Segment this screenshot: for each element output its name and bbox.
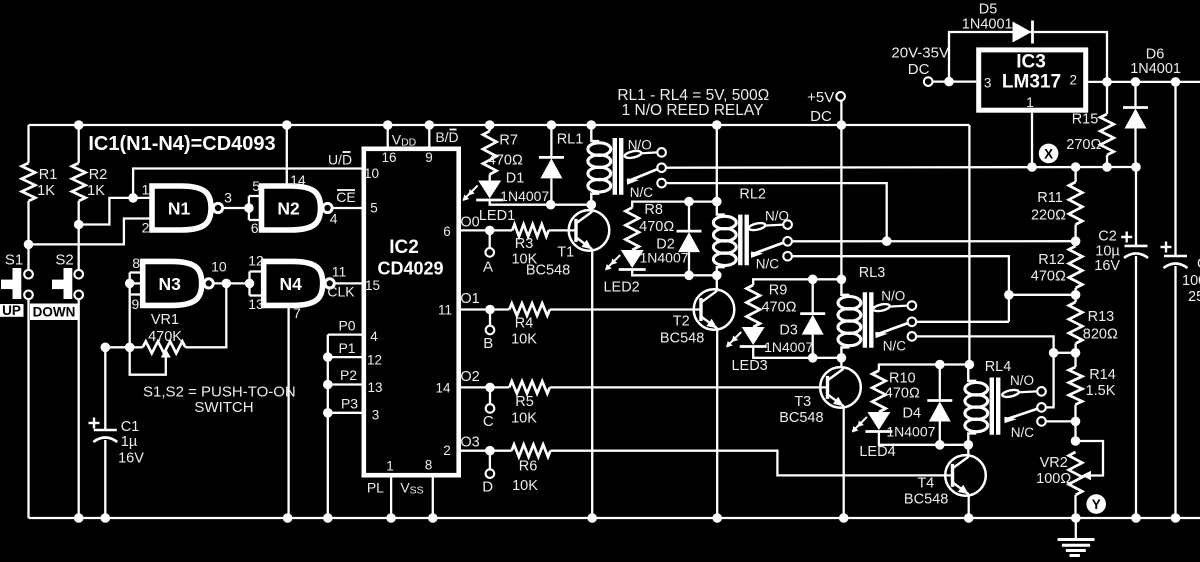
resistor R14 1.5K <box>1074 353 1076 367</box>
svg-text:R10: R10 <box>889 371 916 387</box>
wire R13/R14 branch <box>1054 352 1076 354</box>
node dots on +5V rail <box>74 120 84 130</box>
node dot D2 top <box>684 197 694 207</box>
svg-text:R11: R11 <box>1037 190 1063 206</box>
svg-text:C1: C1 <box>121 419 140 435</box>
svg-text:S2: S2 <box>55 252 73 269</box>
svg-text:D3: D3 <box>779 322 798 338</box>
svg-text:8: 8 <box>425 458 433 473</box>
node dot VR1-C1 junction <box>101 343 111 353</box>
svg-text:1000µ: 1000µ <box>1182 273 1200 289</box>
svg-text:IC1(N1-N4)=CD4093: IC1(N1-N4)=CD4093 <box>88 133 275 155</box>
terminal A <box>489 230 491 248</box>
diode D2 1N4007 <box>688 202 690 232</box>
svg-text:PL: PL <box>367 480 384 496</box>
svg-text:2: 2 <box>142 220 150 236</box>
svg-text:CD4029: CD4029 <box>377 259 443 279</box>
node dot O1/B <box>485 305 495 315</box>
resistor R2 <box>72 163 86 201</box>
svg-text:IC3: IC3 <box>1016 52 1046 73</box>
svg-text:3: 3 <box>984 76 992 91</box>
node dot D3 top <box>808 275 818 285</box>
relay RL4 contacts <box>1002 389 1020 399</box>
svg-text:O3: O3 <box>460 434 479 450</box>
svg-text:1N4007: 1N4007 <box>886 423 935 439</box>
relay RL2 contacts <box>748 222 766 232</box>
svg-text:470Ω: 470Ω <box>639 219 674 235</box>
svg-text:P0: P0 <box>338 317 355 333</box>
svg-text:D: D <box>482 479 493 496</box>
node dot RL2 coil bottom <box>712 271 722 281</box>
svg-text:R1: R1 <box>39 167 58 183</box>
svg-text:10: 10 <box>364 166 379 181</box>
svg-text:D1: D1 <box>506 171 525 187</box>
relay RL3 contacts <box>873 303 891 313</box>
IC2 pin VDD stub (pin 16) <box>387 125 389 147</box>
node dot D5 left <box>944 77 954 87</box>
transistor T1 BC548 <box>569 210 610 251</box>
svg-text:LED4: LED4 <box>859 444 895 460</box>
wire O3 row from IC2 pin2 to T4 base <box>461 450 512 452</box>
wire RL1 common to ADJ line (node X line) <box>666 166 1137 169</box>
wire channel1 bottom (LED1/D1/coil to T1 collector) <box>490 200 592 205</box>
wire ground rail <box>29 517 1200 519</box>
wire left column S1/R1 <box>27 125 29 163</box>
svg-text:A: A <box>483 258 493 275</box>
wire RL2 N/C to R12/R13 junction net <box>792 256 1009 322</box>
terminal B <box>489 310 491 327</box>
svg-text:470Ω: 470Ω <box>885 386 920 402</box>
svg-text:20V-35V: 20V-35V <box>891 45 949 62</box>
wire RL3 common (joins same vertical) <box>916 321 1009 323</box>
svg-text:R9: R9 <box>769 283 788 299</box>
wire N3 input net from VR1 <box>130 282 143 284</box>
nand gate N1 <box>152 186 211 230</box>
svg-text:16: 16 <box>381 150 396 165</box>
svg-text:N/O: N/O <box>1010 373 1034 388</box>
wire channel3 bottom <box>753 347 841 358</box>
node dot RL4 coil bottom <box>964 440 974 450</box>
svg-text:BC548: BC548 <box>904 491 948 507</box>
LED LED1 <box>489 174 491 180</box>
capacitor C1 1u 16V <box>104 347 106 430</box>
node dot O0/A <box>485 226 495 236</box>
svg-text:12: 12 <box>367 353 382 368</box>
capacitor C3 1000u 25V (clipped at edge) <box>1171 77 1181 87</box>
svg-text:9: 9 <box>425 150 433 165</box>
resistor R8 470ohm <box>625 208 639 250</box>
wire RL3 N/C to R13/R14 junction and RL4 common <box>916 336 1053 407</box>
svg-text:RL4: RL4 <box>985 359 1012 375</box>
node dot R12/R13 branch elbow <box>1004 290 1014 300</box>
node dot R1-S1 junction <box>24 240 34 250</box>
resistor R12 470ohm <box>1074 241 1076 246</box>
node dot R12/R13 junction <box>1071 290 1081 300</box>
wire IC3 pin1 (ADJ) down <box>1031 113 1033 167</box>
wire N1 pin1 net (to R2/S2 junction and U/D line) <box>79 198 152 225</box>
svg-text:R13: R13 <box>1088 309 1115 325</box>
svg-text:RL1: RL1 <box>557 132 584 148</box>
svg-text:9: 9 <box>132 296 140 312</box>
transistor T4 BC548 <box>945 455 986 496</box>
svg-text:B: B <box>483 335 493 352</box>
svg-text:5: 5 <box>370 201 378 216</box>
wire column S2/R2 <box>78 125 80 163</box>
svg-text:LED3: LED3 <box>731 358 767 374</box>
svg-text:11: 11 <box>438 303 452 318</box>
node dot R14 bottom / RL4 NC <box>1071 417 1081 427</box>
svg-text:N/C: N/C <box>756 257 780 272</box>
wire RL4 N/C to R14 bottom <box>1046 420 1076 422</box>
svg-text:RL3: RL3 <box>859 265 886 281</box>
resistor R15 270ohm <box>1106 82 1108 114</box>
resistor R6 10K <box>512 445 551 457</box>
node dot N4 input junction <box>245 279 255 289</box>
svg-text:1: 1 <box>1026 95 1034 110</box>
svg-text:LED1: LED1 <box>479 208 515 224</box>
node dot RL2 coil top <box>712 197 722 207</box>
svg-text:T2: T2 <box>673 314 690 330</box>
svg-text:470Ω: 470Ω <box>761 299 796 315</box>
wire N4 output (CLK) to IC2 <box>335 282 362 284</box>
svg-text:13: 13 <box>248 296 264 312</box>
svg-text:25V: 25V <box>1188 289 1200 305</box>
svg-text:CLK: CLK <box>327 284 355 300</box>
wire N4 input bracket <box>250 270 264 272</box>
relay RL1 contacts <box>624 150 642 160</box>
node dot N3 input junction <box>125 279 135 289</box>
IC2 pin B/D stub (pin 9) <box>428 125 430 147</box>
svg-text:1N4007: 1N4007 <box>500 188 549 204</box>
wire R12/R13 branch <box>1009 294 1076 296</box>
svg-text:C: C <box>483 413 494 430</box>
svg-text:CE: CE <box>336 189 355 205</box>
IC2 preset pins P0-P3 <box>328 333 362 335</box>
wire channel3 top (+5V via terminal column) <box>753 279 841 285</box>
svg-text:13: 13 <box>367 380 382 395</box>
svg-text:14: 14 <box>435 381 451 396</box>
node dot D6/C2 on ADJ line <box>1131 162 1141 172</box>
node dot R13/R14 junction <box>1071 348 1081 358</box>
wire RL1 N/C to R11/R12 junction net <box>667 183 887 241</box>
node dot D4 bottom <box>935 440 945 450</box>
diode D1 1N4007 <box>550 125 552 157</box>
resistor R7 470ohm <box>489 125 491 131</box>
svg-text:Y: Y <box>1092 497 1101 512</box>
resistor R1 <box>22 163 36 201</box>
svg-text:T3: T3 <box>794 394 811 410</box>
svg-text:BC548: BC548 <box>526 262 570 278</box>
svg-text:15: 15 <box>365 278 380 293</box>
svg-text:LM317: LM317 <box>1002 72 1061 93</box>
wire O0 row from IC2 pin6 to T1 base <box>461 229 512 231</box>
node dot N2 input junction <box>244 203 254 213</box>
svg-text:BC548: BC548 <box>660 331 704 347</box>
svg-text:BC548: BC548 <box>779 410 823 426</box>
svg-text:IC2: IC2 <box>389 237 419 258</box>
wire N4 pin7 to ground <box>287 305 289 518</box>
node dot output/R15 top <box>1102 77 1112 87</box>
svg-text:C2: C2 <box>1098 229 1117 245</box>
svg-text:R14: R14 <box>1089 367 1116 383</box>
svg-text:1.5K: 1.5K <box>1086 383 1116 399</box>
wire N1 pin2 net (to R1/S1 junction) <box>29 219 153 245</box>
svg-text:B/D: B/D <box>435 129 458 145</box>
svg-text:4: 4 <box>370 329 378 344</box>
wire channel4 top <box>879 365 970 371</box>
node dot N3 output feedback junction <box>222 279 232 289</box>
svg-text:T1: T1 <box>557 245 574 261</box>
svg-text:16V: 16V <box>1094 258 1120 274</box>
wire O2 row from IC2 pin14 to T3 base <box>461 386 509 388</box>
nand gate N2 <box>262 186 321 230</box>
svg-text:O2: O2 <box>460 369 479 385</box>
node dot RL3 coil top <box>837 275 847 285</box>
svg-text:+5V: +5V <box>807 89 834 106</box>
node dots on ground rail <box>74 513 84 523</box>
svg-text:R2: R2 <box>89 167 108 183</box>
svg-text:N/C: N/C <box>630 185 654 200</box>
svg-text:3: 3 <box>372 407 380 422</box>
svg-text:6: 6 <box>251 220 259 236</box>
wire T3 emitter to ground <box>843 406 845 518</box>
svg-text:D4: D4 <box>903 406 922 422</box>
wire O1 row from IC2 pin11 to T2 base <box>461 308 509 310</box>
svg-text:1N4001: 1N4001 <box>1130 61 1181 77</box>
wire RL2 common to R11/R12 junction <box>792 240 1076 242</box>
svg-text:VR1: VR1 <box>151 312 179 328</box>
wire N3 output to N4 inputs <box>213 282 249 284</box>
svg-text:S1: S1 <box>5 252 23 269</box>
resistor R11 220ohm <box>1074 167 1076 182</box>
node dot VR2 wiper tie <box>1071 436 1081 446</box>
svg-text:14: 14 <box>290 172 306 188</box>
svg-text:O0: O0 <box>460 214 479 230</box>
node X <box>1039 144 1059 164</box>
svg-text:P2: P2 <box>340 367 357 383</box>
svg-text:4: 4 <box>330 210 338 226</box>
wire channel4 bottom <box>879 432 968 445</box>
resistor R10 470ohm <box>872 371 886 413</box>
IC IC2 CD4029 body <box>364 149 459 475</box>
IC IC3 LM317 body <box>979 50 1086 110</box>
svg-text:1 N/O REED RELAY: 1 N/O REED RELAY <box>622 102 764 119</box>
svg-text:DOWN: DOWN <box>33 305 76 320</box>
ground symbol <box>1075 518 1077 540</box>
wire N2 input bracket <box>249 195 262 197</box>
svg-text:O1: O1 <box>460 291 479 307</box>
svg-text:N4: N4 <box>280 274 303 294</box>
svg-text:5: 5 <box>252 178 260 194</box>
svg-text:1: 1 <box>142 181 150 197</box>
node dot VR1 left/wiper junction <box>125 343 135 353</box>
node dot D2 bottom <box>684 271 694 281</box>
svg-text:12: 12 <box>248 252 264 268</box>
wire +5V rail right drop to RL4 feed <box>968 125 970 365</box>
node dot +5V on rail <box>837 120 847 130</box>
node dot D3 bottom <box>808 353 818 363</box>
svg-text:DC: DC <box>810 108 832 125</box>
svg-text:7: 7 <box>293 305 301 321</box>
resistor R9 470ohm <box>746 285 760 327</box>
node dot +5V/RL4 coil top <box>965 360 975 370</box>
svg-text:10K: 10K <box>512 478 538 494</box>
svg-text:220Ω: 220Ω <box>1031 207 1066 223</box>
nand gate N3 <box>143 261 202 305</box>
LED LED3 <box>742 327 765 345</box>
svg-text:N2: N2 <box>277 199 300 219</box>
svg-text:10K: 10K <box>511 332 537 348</box>
node dot RL3 coil bottom <box>837 353 847 363</box>
svg-text:N/C: N/C <box>883 338 907 353</box>
svg-text:11: 11 <box>332 263 347 279</box>
svg-text:N1: N1 <box>168 199 191 219</box>
wire N1 output to N2 inputs <box>223 207 249 209</box>
svg-text:R3: R3 <box>515 236 534 252</box>
svg-text:1K: 1K <box>37 183 55 199</box>
node dot O2/C <box>485 383 495 393</box>
node dot RL1-NC/RL2-common junction <box>882 236 892 246</box>
svg-text:D6: D6 <box>1146 46 1165 62</box>
svg-text:R8: R8 <box>644 202 663 218</box>
svg-text:1K: 1K <box>87 183 105 199</box>
wire N2 pin14 to +5V rail <box>286 125 288 186</box>
resistor R5 10K <box>509 381 550 393</box>
svg-text:D5: D5 <box>979 2 998 18</box>
svg-text:R15: R15 <box>1072 112 1099 128</box>
node dot RL1 coil bottom <box>587 200 597 210</box>
svg-text:N/O: N/O <box>765 209 789 224</box>
node Y <box>1086 494 1106 514</box>
svg-text:10: 10 <box>211 258 227 274</box>
svg-text:R7: R7 <box>499 133 518 149</box>
capacitor C2 10u 16V <box>1135 167 1137 246</box>
wire T4 emitter to ground <box>968 494 970 518</box>
node dot R11/R12 junction <box>1071 236 1081 246</box>
svg-text:10µ: 10µ <box>1095 243 1120 259</box>
svg-text:2: 2 <box>1069 73 1077 88</box>
svg-text:N3: N3 <box>159 274 182 294</box>
wire channel2 top (+5V drop to R8/D2/RL2) <box>716 125 718 202</box>
svg-text:N/O: N/O <box>881 289 905 304</box>
nand gate N4 <box>264 261 323 305</box>
svg-text:N/O: N/O <box>628 138 652 153</box>
node dot R2-S2 junction <box>74 220 84 230</box>
node dot ADJ/pin1 <box>1027 162 1037 172</box>
svg-text:10K: 10K <box>511 410 537 426</box>
wire IC3 pin2 output line <box>1088 81 1200 83</box>
svg-text:X: X <box>1044 146 1053 161</box>
diode D5 1N4001 bypass <box>949 32 1107 82</box>
svg-text:1N4007: 1N4007 <box>639 250 688 266</box>
transistor T2 BC548 <box>694 289 735 330</box>
svg-text:P1: P1 <box>338 340 355 356</box>
node dot R13/R14 branch <box>1049 348 1059 358</box>
wire +5V top rail <box>29 124 970 126</box>
resistor R3 10K <box>512 224 548 236</box>
node dot D4 top <box>935 360 945 370</box>
diode D4 1N4007 <box>939 365 941 401</box>
svg-text:100Ω: 100Ω <box>1036 471 1071 487</box>
wire +5V feed down to RL3 top <box>840 101 842 280</box>
svg-text:1µ: 1µ <box>121 434 138 450</box>
svg-text:6: 6 <box>443 224 451 239</box>
svg-text:470Ω: 470Ω <box>1031 269 1066 285</box>
svg-text:T4: T4 <box>917 476 934 492</box>
svg-text:SWITCH: SWITCH <box>194 399 253 416</box>
svg-text:S1,S2 = PUSH-TO-ON: S1,S2 = PUSH-TO-ON <box>143 384 296 401</box>
diode D3 1N4007 <box>812 279 814 313</box>
wire channel2 bottom <box>632 270 717 276</box>
svg-text:16V: 16V <box>118 451 144 467</box>
svg-text:R5: R5 <box>515 394 534 410</box>
svg-text:3: 3 <box>224 190 232 206</box>
svg-text:LED2: LED2 <box>603 280 639 296</box>
svg-text:470K: 470K <box>148 329 182 345</box>
svg-text:1N4007: 1N4007 <box>764 339 813 355</box>
node dot N1 pin1 <box>128 193 138 203</box>
svg-text:U/D: U/D <box>328 152 352 168</box>
LED LED2 <box>621 250 644 268</box>
svg-text:R12: R12 <box>1038 252 1065 268</box>
svg-text:8: 8 <box>132 255 140 271</box>
svg-text:470Ω: 470Ω <box>488 153 523 169</box>
LED LED4 <box>867 412 890 430</box>
resistor R4 10K <box>509 303 550 315</box>
resistor R13 820ohm <box>1074 295 1076 302</box>
svg-text:2: 2 <box>443 443 451 458</box>
svg-text:R6: R6 <box>519 459 538 475</box>
svg-text:DC: DC <box>908 61 930 78</box>
svg-text:820Ω: 820Ω <box>1083 327 1118 343</box>
terminal D <box>489 451 491 470</box>
svg-text:R4: R4 <box>515 316 534 332</box>
svg-text:N/C: N/C <box>1011 425 1035 440</box>
svg-text:VR2: VR2 <box>1040 455 1068 471</box>
terminal C <box>489 387 491 404</box>
node dot R11 top <box>1071 162 1081 172</box>
IC2 bottom pins PL (1) and Vss (8) <box>390 478 392 519</box>
svg-text:1: 1 <box>386 459 394 474</box>
node dot O3/D <box>485 446 495 456</box>
wire input to IC3 pin3 <box>933 80 977 82</box>
svg-text:270Ω: 270Ω <box>1066 137 1101 153</box>
wire T2 emitter to ground <box>716 328 718 518</box>
node dot D1 bottom <box>546 200 556 210</box>
svg-text:RL2: RL2 <box>739 187 766 203</box>
node dot R15 bottom <box>1102 162 1112 172</box>
svg-text:UP: UP <box>2 303 21 318</box>
svg-text:1N4001: 1N4001 <box>962 17 1013 33</box>
svg-text:P3: P3 <box>341 396 358 412</box>
wire N2 output (CE) to IC2 <box>332 207 361 209</box>
transistor T3 BC548 <box>820 367 861 408</box>
wire T1 emitter to ground <box>591 249 593 518</box>
